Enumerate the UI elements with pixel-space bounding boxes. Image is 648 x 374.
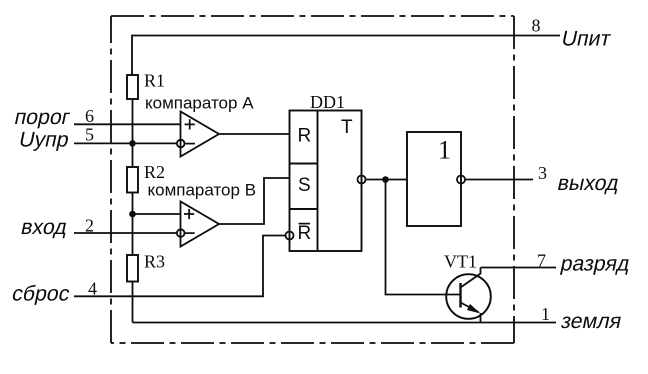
emitter arrowhead [467,304,481,314]
svg-text:4: 4 [88,279,97,299]
wire pin1 ground rail [133,322,557,324]
label Uпит [559,27,613,51]
plus sign comparator B [184,209,194,219]
svg-text:2: 2 [85,216,94,236]
label порог [12,105,72,129]
label Uупр [17,128,71,152]
junction node pin5/divider [129,140,136,147]
svg-text:DD1: DD1 [310,92,345,112]
wire R2-R3 node to B plus input [133,213,181,215]
inverting input bubble B [177,229,185,237]
svg-text:1: 1 [541,304,550,324]
VT1 base bar [459,283,461,308]
wire R1 to R2 [132,99,134,167]
label сброс [10,282,72,306]
svg-text:6: 6 [85,106,94,126]
svg-text:7: 7 [537,251,546,271]
svg-text:R1: R1 [144,71,165,91]
svg-text:5: 5 [85,125,94,145]
wire B output to S input [219,178,290,224]
svg-text:вход: вход [19,215,70,239]
wire pin8 Uпит rail [132,36,560,76]
svg-text:R3: R3 [144,252,165,272]
minus sign comparator A [185,143,195,145]
R-bar input bubble [286,232,294,240]
svg-text:R2: R2 [144,162,165,182]
svg-text:8: 8 [532,16,541,36]
svg-text:компаратор А: компаратор А [145,94,254,113]
svg-text:R: R [298,126,312,147]
wire R2 to R3 [132,193,134,256]
resistor R3 [127,255,138,282]
wire R3 to ground rail [132,282,134,323]
buffer output bubble [457,176,465,184]
wire node to transistor base [386,180,461,295]
svg-text:Uупр: Uупр [17,128,71,152]
buffer gate box [407,132,461,226]
label вход [19,215,70,239]
wire pin6 порог [74,123,181,125]
wire pin7 разряд [481,267,557,269]
VT1 emitter [461,303,479,313]
svg-text:T: T [341,117,353,138]
label разряд [558,252,632,276]
svg-text:разряд: разряд [558,252,632,276]
wire pin5 Uупр [74,142,177,144]
op-amp comparator A [181,112,220,157]
junction node R2/R3 divider [129,211,136,218]
DD1 output bubble [358,176,366,184]
junction node buffer input [382,176,389,183]
svg-text:порог: порог [12,105,72,129]
transistor VT1 circle [446,274,491,319]
svg-text:сброс: сброс [10,282,72,306]
label земля [559,309,624,333]
svg-text:1: 1 [438,136,451,165]
svg-text:земля: земля [559,309,624,333]
svg-text:R: R [298,223,312,244]
wire pin4 сброс [74,236,286,297]
svg-text:выход: выход [555,171,621,195]
overbar of R-bar label [299,223,311,225]
plus sign comparator A [185,119,195,129]
flip-flop DD1 box [290,111,362,252]
wire A output to R input [219,133,290,135]
wire pin3 выход [465,179,533,181]
resistor R1 [127,75,138,99]
label выход [555,171,621,195]
resistor R2 [127,167,138,193]
inverting input bubble A [177,140,185,148]
svg-text:VT1: VT1 [444,252,477,272]
svg-text:3: 3 [538,163,547,183]
op-amp comparator B [181,202,220,247]
wire pin2 вход [74,232,177,234]
IC boundary dash-dot frame [111,16,514,343]
svg-text:S: S [298,175,311,196]
minus sign comparator B [185,232,195,234]
svg-text:компаратор В: компаратор В [148,181,257,200]
wire DD1 output to buffer [366,179,408,181]
svg-text:Uпит: Uпит [559,27,613,51]
wire emitter to ground [480,313,482,323]
VT1 collector [461,268,481,288]
